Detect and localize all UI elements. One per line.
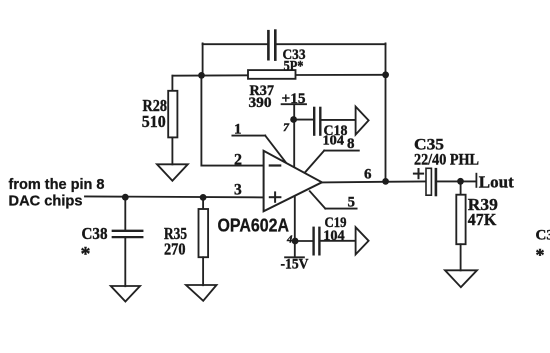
svg-text:from the pin 8: from the pin 8 xyxy=(9,176,105,193)
svg-text:2: 2 xyxy=(234,151,242,168)
svg-text:*: * xyxy=(536,245,545,265)
svg-text:104: 104 xyxy=(323,134,345,149)
svg-text:C38: C38 xyxy=(82,224,108,243)
svg-text:5: 5 xyxy=(348,195,356,211)
svg-text:390: 390 xyxy=(249,95,272,111)
svg-text:DAC chips: DAC chips xyxy=(9,192,83,209)
svg-text:Lout: Lout xyxy=(479,172,514,191)
svg-text:C3: C3 xyxy=(536,227,550,243)
svg-text:22/40 PHL: 22/40 PHL xyxy=(414,151,479,168)
svg-text:104: 104 xyxy=(323,228,345,244)
svg-text:-15V: -15V xyxy=(281,257,309,273)
svg-text:*: * xyxy=(81,243,91,265)
svg-text:1: 1 xyxy=(234,122,242,138)
svg-text:OPA602A: OPA602A xyxy=(218,216,290,236)
svg-text:5P*: 5P* xyxy=(284,59,304,75)
svg-text:8: 8 xyxy=(347,136,355,152)
svg-text:7: 7 xyxy=(283,120,290,134)
svg-text:270: 270 xyxy=(164,239,186,258)
svg-text:6: 6 xyxy=(364,167,372,183)
svg-text:+15: +15 xyxy=(282,91,306,107)
svg-text:510: 510 xyxy=(142,112,166,131)
svg-text:47K: 47K xyxy=(468,210,497,229)
svg-text:3: 3 xyxy=(234,182,242,199)
